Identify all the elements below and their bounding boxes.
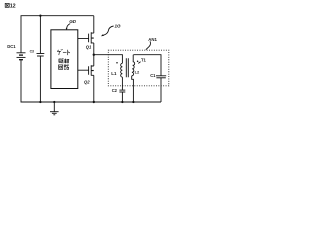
svg-text:T1: T1 <box>141 58 147 63</box>
svg-text:Q2: Q2 <box>84 79 90 84</box>
svg-text:AN1: AN1 <box>148 37 157 42</box>
svg-text:1G: 1G <box>115 23 122 28</box>
svg-text:C3: C3 <box>30 50 34 54</box>
svg-text:12: 12 <box>10 4 16 10</box>
svg-text:L1: L1 <box>111 71 117 76</box>
svg-text:DC1: DC1 <box>7 44 16 49</box>
svg-text:C2: C2 <box>112 88 118 93</box>
svg-text:L2: L2 <box>135 70 140 75</box>
svg-text:C1: C1 <box>150 73 156 78</box>
svg-text:GD: GD <box>69 19 77 24</box>
svg-text:Q1: Q1 <box>86 44 92 49</box>
